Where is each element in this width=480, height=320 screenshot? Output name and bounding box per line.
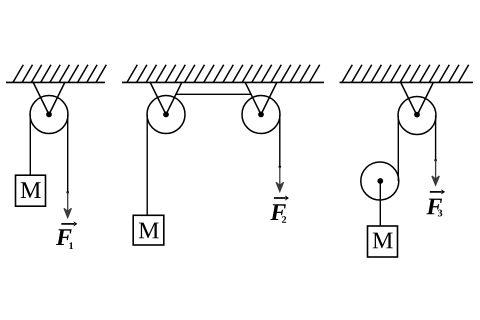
axle dot P2a [163, 112, 169, 118]
pulley P2b [242, 96, 280, 134]
label M (system 1) [21, 182, 41, 198]
mass box M (system 2) [133, 215, 164, 245]
mass box M (system 1) [16, 175, 46, 206]
wire: rope from pulley P2b down to force F2 [279, 115, 281, 167]
ceiling line (system 1) [6, 81, 105, 83]
wire: hanger from pulley P4 axle to mass M [379, 181, 381, 226]
rope end dot (system 2) [279, 166, 282, 169]
label F3 vector arrow [430, 191, 442, 193]
axle dot P2b [258, 112, 264, 118]
label M (system 3) [373, 233, 393, 249]
pulley support V (system 1) [33, 82, 65, 115]
fixed pulley P3 [398, 97, 436, 135]
ceiling hatching (system 1) [13, 65, 106, 83]
wire: rope from pulley P1 down to force F1 [67, 115, 69, 193]
axle dot P1 [46, 112, 52, 118]
wire: rope from pulley P1 to mass M [29, 115, 31, 176]
pulley support V (system 3) [401, 82, 434, 116]
axle dot P3 [414, 112, 420, 118]
axle dot P4 [377, 178, 383, 184]
ceiling line (system 2) [122, 81, 324, 83]
mass box M (system 3) [368, 226, 398, 257]
pulley support V (system 2, right pulley) [245, 82, 277, 115]
label F2 [270, 204, 286, 220]
label F1 vector arrow [61, 223, 74, 225]
wire: rope from pulley P2a to mass M [146, 115, 148, 216]
rope end dot (system 1) [66, 191, 69, 194]
pulley support V (system 2, left pulley) [150, 82, 182, 115]
force arrowhead F2 [276, 182, 283, 191]
force arrowhead F1 [64, 208, 71, 217]
rope end dot (system 3) [434, 159, 437, 162]
label F1 [56, 229, 72, 245]
label M (system 2) [139, 223, 159, 239]
force arrowhead F3 [432, 176, 439, 185]
wire: rope from fixed pulley P3 to movable pulley P4 [397, 116, 399, 182]
pulley P1 [30, 96, 68, 134]
ceiling hatching (system 3) [342, 65, 469, 83]
ceiling hatching (system 2) [127, 65, 320, 83]
movable pulley P4 [361, 162, 399, 200]
ceiling line (system 3) [340, 81, 474, 83]
wire: horizontal rope between pulleys P2a and P2b [176, 93, 251, 95]
force arrow shaft F2 [279, 167, 281, 188]
pulley P2a [147, 96, 185, 134]
force arrow shaft F1 [67, 192, 69, 214]
label F3 [426, 199, 442, 215]
wire: rope from fixed pulley P3 down to force F3 [435, 116, 437, 161]
label F2 vector arrow [274, 197, 286, 199]
force arrow shaft F3 [435, 160, 437, 181]
